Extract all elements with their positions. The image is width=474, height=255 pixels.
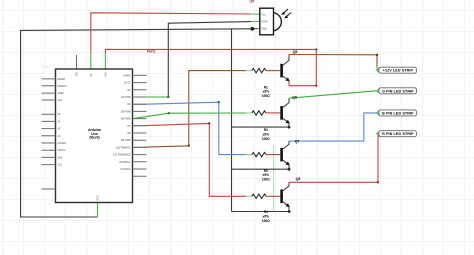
svg-text:U5: U5 [250, 0, 254, 4]
svg-text:Part1: Part1 [147, 49, 156, 53]
svg-text:+12V LED STRIP: +12V LED STRIP [383, 69, 414, 73]
svg-text:D1/TX: D1/TX [124, 82, 131, 85]
svg-text:RESET2: RESET2 [58, 85, 68, 88]
svg-text:A5/SCL: A5/SCL [58, 149, 67, 152]
svg-text:100Ω: 100Ω [262, 177, 270, 181]
svg-text:D9 PWM: D9 PWM [121, 139, 131, 142]
svg-text:G PIN LED STRIP: G PIN LED STRIP [382, 89, 414, 93]
svg-text:RESET: RESET [58, 78, 67, 81]
svg-text:Q5: Q5 [293, 50, 298, 54]
svg-text:D12/MISO: D12/MISO [119, 161, 130, 164]
svg-text:Q7: Q7 [295, 140, 300, 144]
svg-text:D10 PWM/SS: D10 PWM/SS [116, 146, 131, 149]
svg-text:100Ω: 100Ω [262, 137, 270, 141]
svg-text:B PIN LED STRIP: B PIN LED STRIP [382, 111, 414, 115]
svg-text:D3 PWM: D3 PWM [121, 96, 131, 99]
svg-text:GND: GND [97, 195, 100, 201]
svg-text:AREF: AREF [58, 92, 65, 95]
svg-text:100Ω: 100Ω [262, 219, 270, 223]
svg-text:3V3: 3V3 [76, 72, 79, 77]
svg-text:ioref: ioref [58, 99, 63, 102]
svg-text:(Rev3): (Rev3) [89, 136, 99, 140]
svg-text:A4/SDA: A4/SDA [58, 142, 67, 145]
svg-text:VIN: VIN [105, 72, 108, 76]
svg-text:D6 PWM: D6 PWM [121, 118, 131, 121]
svg-text:100Ω: 100Ω [262, 94, 270, 98]
svg-text:5V: 5V [90, 73, 93, 76]
svg-text:Q8: Q8 [296, 177, 301, 181]
svg-text:Part2: Part2 [42, 65, 50, 69]
svg-text:SDA: SDA [58, 156, 63, 159]
svg-text:D5 PWM: D5 PWM [121, 110, 131, 113]
svg-text:R PIN LED STRIP: R PIN LED STRIP [382, 132, 414, 136]
svg-text:DATA: DATA [262, 21, 268, 24]
svg-text:Q6: Q6 [292, 95, 297, 99]
svg-text:D0/RX: D0/RX [123, 74, 130, 77]
svg-text:SCL: SCL [58, 164, 63, 167]
svg-text:D13/SCK: D13/SCK [121, 168, 131, 171]
svg-text:D11 PWM/MOSI: D11 PWM/MOSI [113, 154, 131, 157]
svg-text:GND: GND [262, 28, 268, 31]
